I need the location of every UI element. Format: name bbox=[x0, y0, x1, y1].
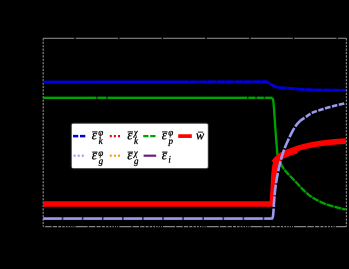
legend label eps_g^chi bbox=[127, 148, 139, 167]
top spine major-tick notches bbox=[75, 38, 337, 40]
top spine bbox=[43, 37, 346, 39]
legend label eps_k^phi bbox=[92, 127, 104, 146]
svg-text:ε: ε bbox=[162, 127, 168, 142]
red wbar elbow blob (dense oscillation) bbox=[275, 150, 298, 163]
legend handle: blue dashes bbox=[73, 135, 85, 138]
left spine (dotted) bbox=[42, 38, 44, 226]
legend handle: green dashes bbox=[143, 135, 155, 137]
svg-text:g: g bbox=[134, 156, 139, 166]
svg-text:ε: ε bbox=[162, 148, 168, 163]
legend label wbar bbox=[196, 128, 205, 142]
curve: blue eps_k^phi left (solid) bbox=[43, 81, 181, 84]
svg-text:ε: ε bbox=[92, 127, 98, 142]
legend handle: red thick solid bbox=[178, 134, 192, 138]
legend handle: purple solid bbox=[144, 155, 157, 157]
svg-text:p: p bbox=[168, 136, 174, 146]
curve: green eps_p^phi drop (solid, dense data) bbox=[272, 98, 277, 156]
legend handle: periwinkle dots bbox=[74, 155, 84, 157]
curve: red wbar (thick solid) bbox=[43, 141, 346, 204]
right spine (dotted) bbox=[345, 38, 347, 226]
legend label eps_p^phi bbox=[162, 127, 174, 146]
bottom spine log-tick notches bbox=[45, 226, 336, 228]
legend label eps_k^chi bbox=[127, 127, 139, 146]
svg-text:ε: ε bbox=[127, 127, 133, 142]
legend box bbox=[71, 123, 208, 168]
svg-text:ε: ε bbox=[127, 148, 133, 163]
curve: green eps_p^phi flat (solid segments + sparse gaps) bbox=[43, 97, 87, 99]
curve: blue right dim underlay bbox=[181, 82, 346, 91]
svg-text:w: w bbox=[196, 128, 205, 142]
curve: periwinkle eps_g^phi flat (long dashes) bbox=[43, 217, 272, 220]
curve: periwinkle flat dim underlay bbox=[43, 218, 272, 220]
legend handle: red dots bbox=[110, 135, 120, 137]
curve: periwinkle eps_g^phi rise (dashed) bbox=[272, 121, 300, 219]
svg-text:g: g bbox=[99, 156, 104, 166]
legend handle: orange dots bbox=[110, 155, 120, 157]
legend label eps_g^phi bbox=[92, 148, 104, 167]
bottom spine bbox=[43, 226, 346, 228]
curve: green eps_p^phi tail (dashed) bbox=[278, 156, 346, 210]
curve: periwinkle eps_g^phi right (finer dashes) bbox=[300, 103, 346, 121]
curve: blue eps_k^phi right (dashed) bbox=[181, 82, 346, 91]
svg-text:ε: ε bbox=[92, 148, 98, 163]
legend label eps_i bbox=[162, 148, 172, 165]
